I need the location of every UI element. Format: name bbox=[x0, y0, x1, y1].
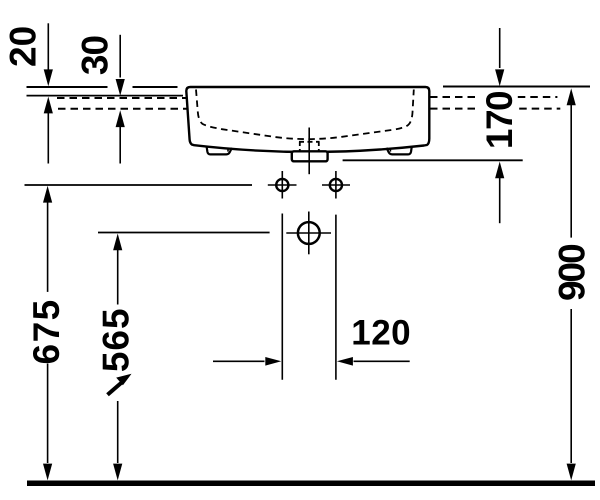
30 dimension line and arrows bbox=[119, 35, 121, 78]
left foot bbox=[207, 147, 232, 155]
svg-text:565: 565 bbox=[96, 307, 137, 372]
20 dimension line and arrows bbox=[47, 23, 49, 70]
hidden edge dashed line upper right (segment 1) bbox=[430, 96, 478, 98]
vertical centerline through drain bbox=[308, 128, 310, 175]
drain pipe hole crosshair bbox=[286, 232, 331, 234]
svg-text:900: 900 bbox=[552, 244, 593, 301]
svg-text:120: 120 bbox=[351, 314, 411, 353]
drain fitting rectangle bbox=[292, 151, 328, 161]
hidden edge dashed line upper right (segment 2) bbox=[518, 96, 558, 98]
20mm lower reference solid line bbox=[27, 95, 184, 97]
svg-text:30: 30 bbox=[74, 36, 115, 76]
rim level extension line right bbox=[443, 86, 590, 88]
left faucet hole bbox=[276, 179, 288, 191]
right faucet hole bbox=[330, 179, 342, 191]
drain pipe axis reference line (565) bbox=[98, 232, 270, 234]
hidden edge dashed line lower right (segment 2) bbox=[519, 108, 560, 110]
hidden edge dashed line lower right (segment 1) bbox=[430, 108, 480, 110]
washbasin outer outline bbox=[186, 87, 429, 152]
rim level extension line left segment 2 bbox=[133, 86, 178, 88]
washbasin inner bowl hidden contour (dashed) bbox=[196, 90, 414, 140]
right foot bbox=[387, 147, 412, 155]
hidden drain outline (dashed) bbox=[299, 142, 301, 151]
rim level extension line left segment 1 bbox=[27, 86, 108, 88]
floor line bbox=[27, 481, 595, 487]
hidden edge dashed line upper left bbox=[57, 97, 186, 99]
170 dimension line and arrows bbox=[499, 28, 501, 68]
120 dimension left arrow bbox=[213, 360, 265, 362]
170 reference line under basin bbox=[343, 159, 523, 161]
svg-text:675: 675 bbox=[26, 298, 67, 364]
900 dimension line and arrows bbox=[567, 88, 576, 105]
faucet holes axis reference line (675) bbox=[25, 184, 253, 186]
565 dimension line and arrows bbox=[113, 234, 122, 251]
direction arrow (north-east) bbox=[108, 383, 122, 395]
120 dimension extension line right bbox=[335, 215, 337, 380]
svg-text:20: 20 bbox=[3, 26, 44, 67]
120 dimension right arrow bbox=[354, 360, 410, 362]
hidden edge dashed line lower left bbox=[58, 108, 187, 110]
left faucet hole crosshair bbox=[268, 184, 297, 186]
675 dimension line and arrows bbox=[43, 186, 52, 203]
svg-text:170: 170 bbox=[479, 91, 520, 149]
120 dimension extension line left bbox=[281, 214, 283, 380]
drain pipe hole bbox=[298, 222, 320, 244]
right faucet hole crosshair bbox=[322, 184, 350, 186]
